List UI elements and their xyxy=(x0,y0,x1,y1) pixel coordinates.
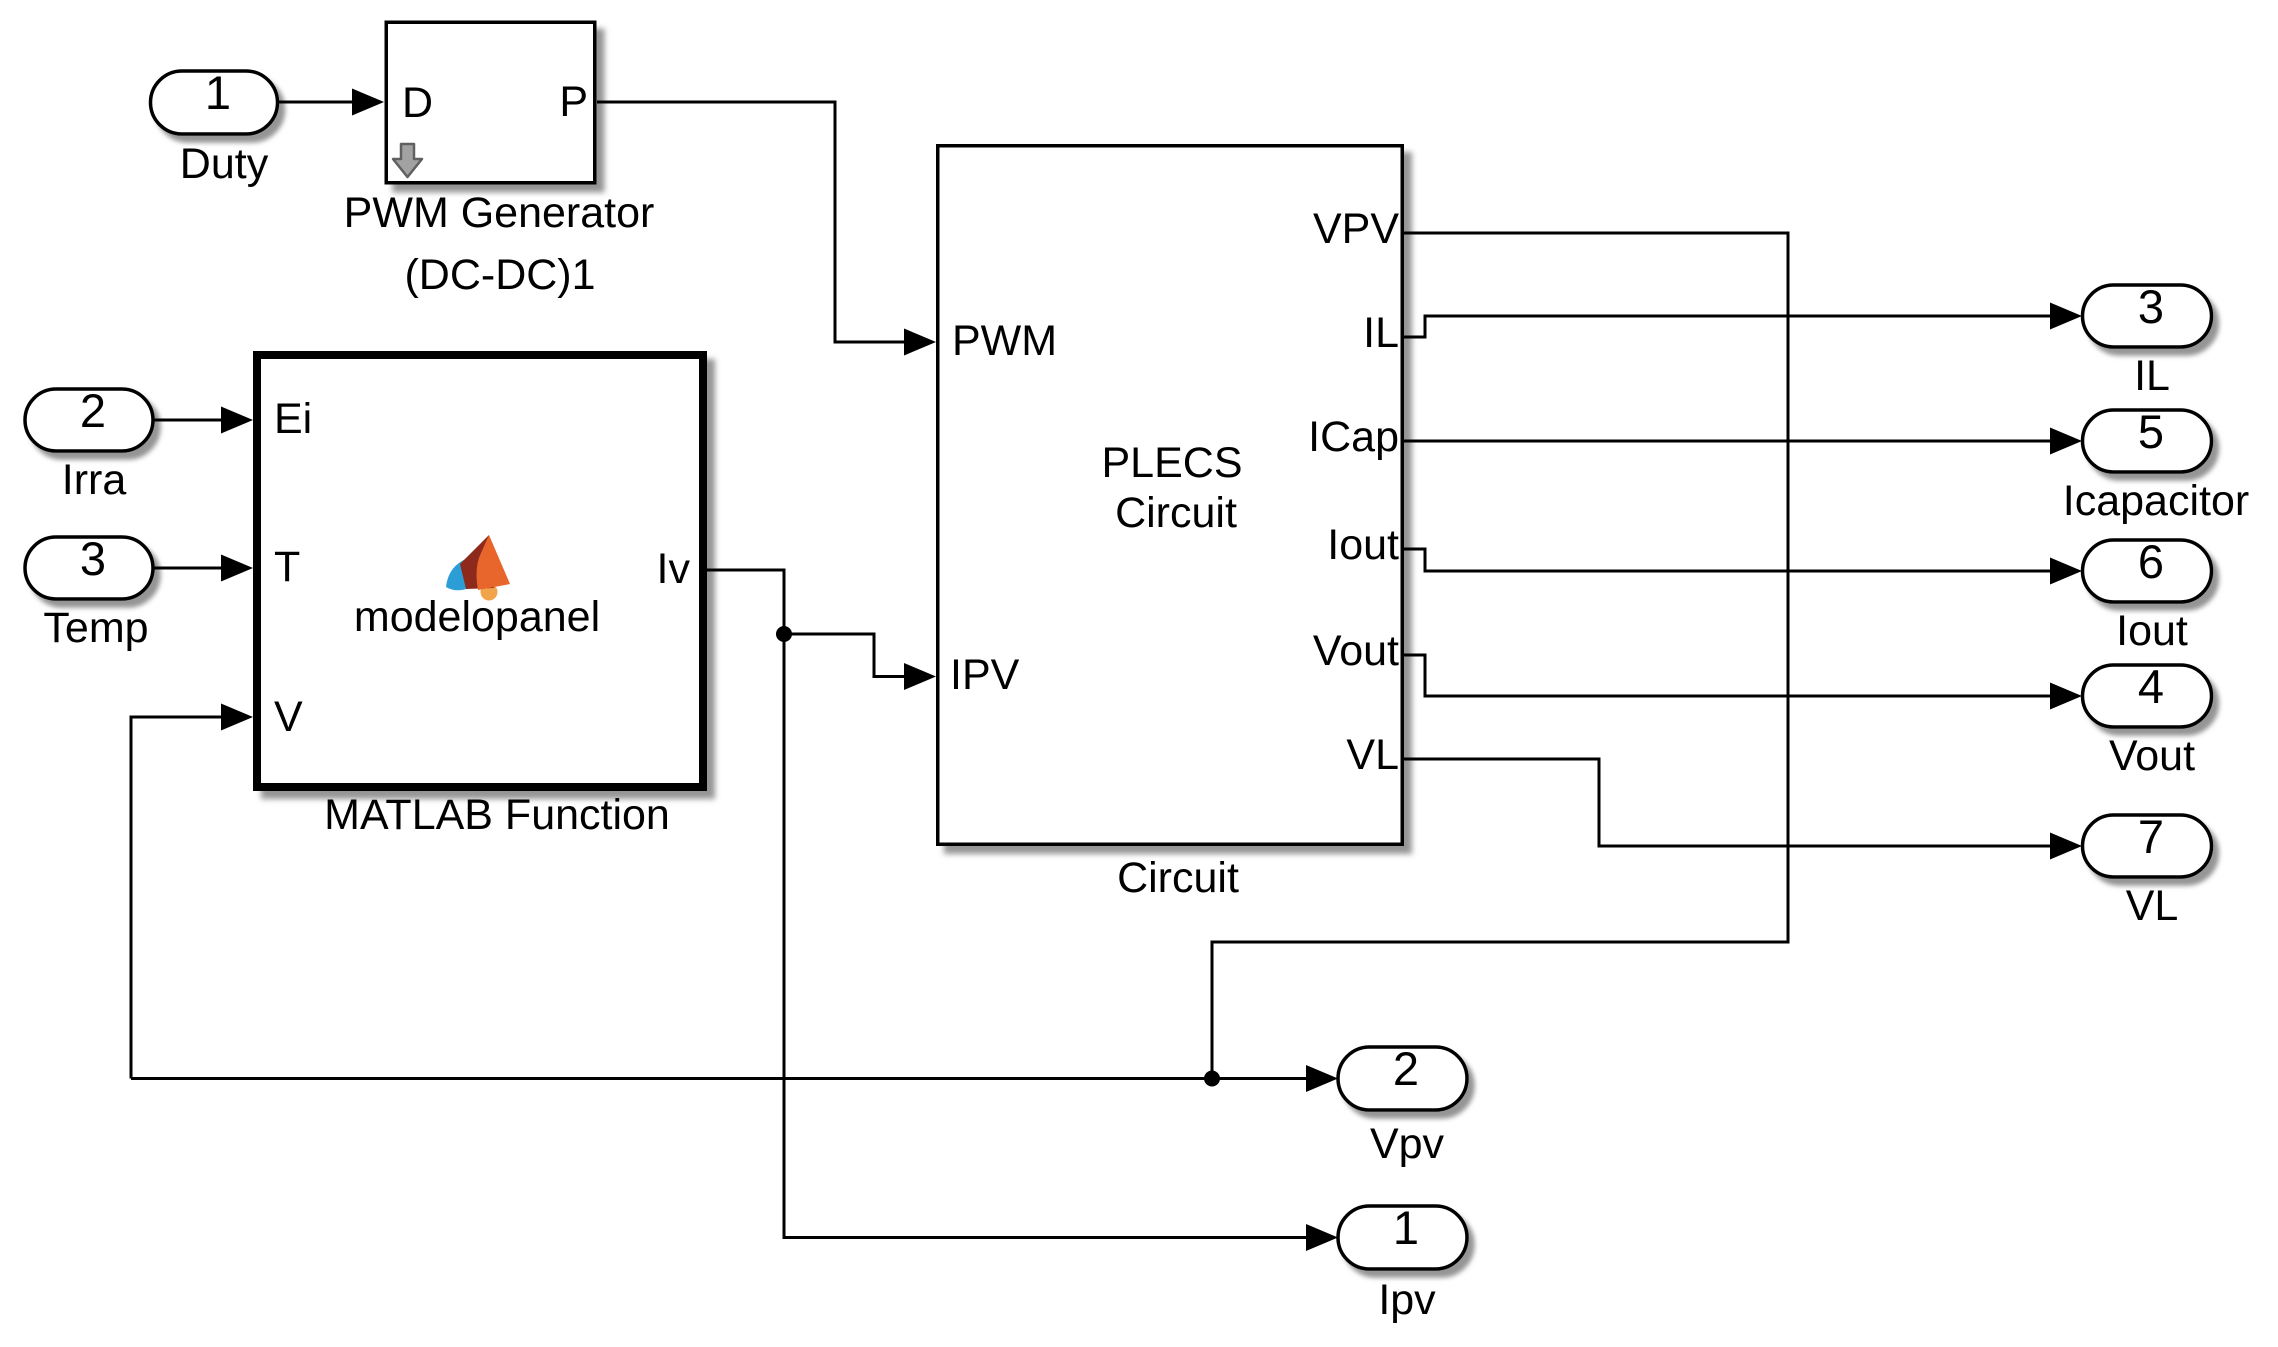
svg-text:IL: IL xyxy=(2134,352,2170,400)
inport 1 Duty xyxy=(151,66,278,188)
wire VL output to outport 7 xyxy=(1404,759,2082,860)
svg-text:3: 3 xyxy=(80,532,106,585)
svg-text:VL: VL xyxy=(2126,882,2179,930)
svg-text:P: P xyxy=(559,78,588,126)
svg-text:PWM: PWM xyxy=(952,317,1057,365)
wire Vout output to outport 4 xyxy=(1404,655,2082,710)
svg-text:Iout: Iout xyxy=(2116,607,2188,655)
gray down-arrow icon xyxy=(393,144,422,177)
block U1 PWM Generator (DC-DC)1 xyxy=(344,22,655,299)
wire Vpv node to V input (vertical riser) xyxy=(131,704,253,1079)
outport 2 Vpv xyxy=(1338,1042,1467,1168)
wire Vpv node to outport Vpv xyxy=(131,1065,1338,1092)
svg-text:4: 4 xyxy=(2138,660,2164,713)
svg-text:Irra: Irra xyxy=(62,456,127,504)
svg-text:IPV: IPV xyxy=(950,651,1020,699)
svg-text:V: V xyxy=(274,693,303,741)
svg-text:1: 1 xyxy=(1393,1201,1419,1254)
svg-text:Circuit: Circuit xyxy=(1117,854,1239,902)
svg-text:Vpv: Vpv xyxy=(1370,1120,1445,1168)
wire Irra to Ei input xyxy=(153,407,253,434)
outport 1 Ipv xyxy=(1338,1201,1467,1324)
svg-text:IL: IL xyxy=(1363,309,1399,357)
svg-text:5: 5 xyxy=(2138,405,2164,458)
svg-text:2: 2 xyxy=(1393,1042,1419,1095)
outport 6 Iout xyxy=(2083,535,2212,655)
svg-text:6: 6 xyxy=(2138,535,2164,588)
svg-text:Circuit: Circuit xyxy=(1115,489,1237,537)
svg-text:1: 1 xyxy=(205,66,231,119)
wire ICap output to outport 5 xyxy=(1404,428,2082,455)
wire Iv output to node then outport Ipv xyxy=(707,570,1338,1251)
wire Duty to D input of PWM Generator xyxy=(277,89,384,116)
svg-text:Iv: Iv xyxy=(657,545,691,593)
wire VPV output down to Vpv node xyxy=(1212,233,1788,1079)
svg-text:ICap: ICap xyxy=(1308,413,1399,461)
svg-text:Vout: Vout xyxy=(1313,627,1399,675)
svg-text:PLECS: PLECS xyxy=(1101,439,1242,487)
wire P output to PLECS PWM input xyxy=(597,102,936,356)
wire IL output to outport 3 xyxy=(1404,303,2082,338)
svg-text:Iout: Iout xyxy=(1327,521,1399,569)
svg-text:Icapacitor: Icapacitor xyxy=(2063,477,2249,525)
outport 4 Vout xyxy=(2083,660,2212,780)
inport 3 Temp xyxy=(25,532,153,652)
inport 2 Irra xyxy=(25,384,153,504)
svg-text:Ipv: Ipv xyxy=(1378,1276,1436,1324)
block U3 PLECS Circuit xyxy=(938,146,1403,902)
svg-text:7: 7 xyxy=(2138,810,2164,863)
svg-text:Vout: Vout xyxy=(2109,732,2195,780)
svg-text:(DC-DC)1: (DC-DC)1 xyxy=(404,251,595,299)
wire branch node to IPV input xyxy=(784,634,904,677)
wire Temp to T input xyxy=(153,555,253,582)
junction node Iv xyxy=(776,626,792,642)
svg-text:VL: VL xyxy=(1346,731,1399,779)
outport 3 IL xyxy=(2083,280,2212,400)
svg-text:2: 2 xyxy=(80,384,106,437)
svg-text:T: T xyxy=(274,543,300,591)
MATLAB membrane logo xyxy=(446,535,510,601)
svg-text:3: 3 xyxy=(2138,280,2164,333)
svg-text:MATLAB Function: MATLAB Function xyxy=(324,791,670,839)
svg-text:Ei: Ei xyxy=(274,395,312,443)
svg-text:Temp: Temp xyxy=(43,604,148,652)
outport 7 VL xyxy=(2083,810,2212,930)
svg-text:Duty: Duty xyxy=(180,140,269,188)
junction node Vpv xyxy=(1204,1071,1220,1087)
svg-text:modelopanel: modelopanel xyxy=(354,593,600,641)
svg-text:VPV: VPV xyxy=(1313,205,1399,253)
block U2 MATLAB Function modelopanel xyxy=(257,355,703,839)
outport 5 Icapacitor xyxy=(2063,405,2249,525)
wire Iout output to outport 6 xyxy=(1404,549,2082,585)
svg-text:D: D xyxy=(402,79,433,127)
svg-text:PWM Generator: PWM Generator xyxy=(344,189,655,237)
